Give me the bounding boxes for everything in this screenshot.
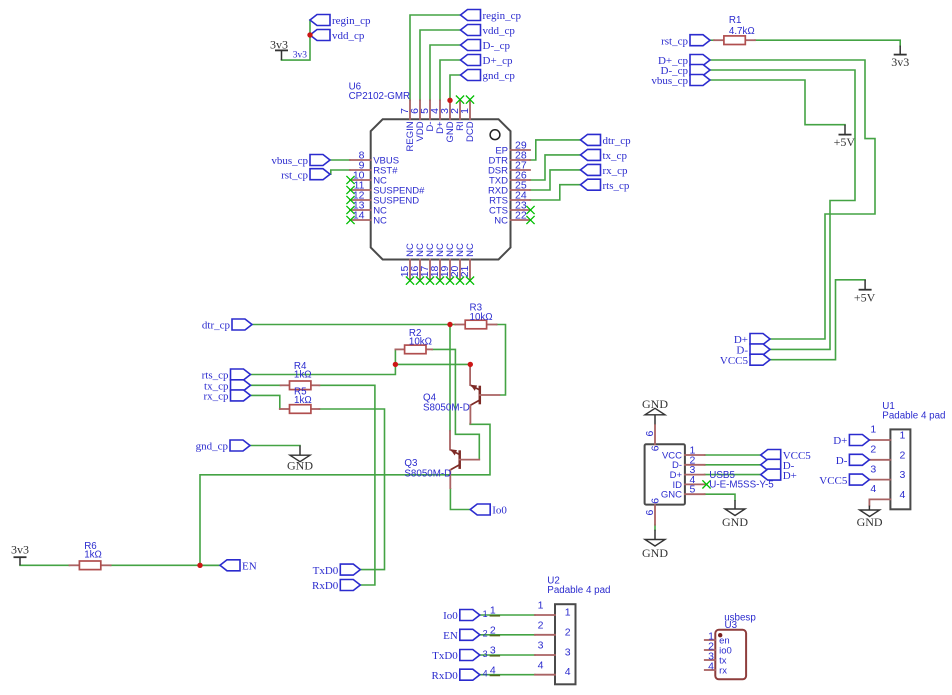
svg-text:10kΩ: 10kΩ — [409, 337, 432, 348]
svg-text:Q3: Q3 — [404, 458, 418, 469]
svg-text:3: 3 — [538, 640, 544, 652]
svg-text:3v3: 3v3 — [293, 51, 308, 61]
svg-text:1kΩ: 1kΩ — [294, 395, 312, 406]
svg-text:GNC: GNC — [661, 490, 682, 501]
svg-text:+5V: +5V — [854, 290, 876, 304]
svg-text:2: 2 — [565, 626, 571, 638]
svg-text:D+: D+ — [783, 470, 797, 482]
svg-text:14: 14 — [353, 209, 365, 221]
svg-text:3v3: 3v3 — [11, 542, 29, 556]
svg-text:3: 3 — [900, 469, 906, 481]
svg-text:4: 4 — [870, 483, 876, 495]
svg-text:RxD0: RxD0 — [432, 670, 459, 682]
svg-text:3v3: 3v3 — [270, 38, 288, 52]
svg-text:1: 1 — [538, 600, 544, 612]
svg-text:D+: D+ — [833, 435, 847, 447]
svg-text:VCC5: VCC5 — [819, 475, 848, 487]
svg-text:4: 4 — [708, 660, 714, 672]
svg-text:4: 4 — [538, 659, 544, 671]
svg-text:4: 4 — [490, 664, 496, 676]
svg-text:gnd_cp: gnd_cp — [196, 441, 229, 453]
svg-text:4: 4 — [565, 666, 571, 678]
svg-text:6: 6 — [644, 509, 656, 515]
svg-text:GND: GND — [287, 459, 313, 473]
svg-text:TxD0: TxD0 — [432, 650, 458, 662]
svg-text:NC: NC — [465, 243, 476, 257]
svg-text:1: 1 — [565, 607, 571, 619]
svg-text:5: 5 — [690, 484, 696, 496]
svg-text:DCD: DCD — [465, 121, 476, 142]
svg-text:10kΩ: 10kΩ — [470, 312, 493, 323]
svg-text:1: 1 — [483, 609, 488, 619]
svg-text:S8050M-D: S8050M-D — [423, 403, 470, 414]
svg-text:EN: EN — [443, 630, 458, 642]
svg-text:rts_cp: rts_cp — [603, 180, 630, 192]
svg-text:6: 6 — [644, 430, 656, 436]
svg-text:3: 3 — [490, 645, 496, 657]
svg-text:GND: GND — [857, 515, 883, 529]
svg-text:6: 6 — [649, 498, 661, 504]
svg-text:GND: GND — [642, 397, 668, 411]
svg-text:1kΩ: 1kΩ — [84, 549, 102, 560]
svg-text:6: 6 — [649, 445, 661, 451]
svg-text:vbus_cp: vbus_cp — [271, 155, 308, 167]
svg-text:+5V: +5V — [834, 135, 856, 149]
svg-text:Io0: Io0 — [443, 610, 458, 622]
svg-text:2: 2 — [490, 625, 496, 637]
svg-text:2: 2 — [483, 629, 488, 639]
svg-text:rst_cp: rst_cp — [281, 169, 308, 181]
svg-text:vdd_cp: vdd_cp — [483, 25, 516, 37]
svg-text:21: 21 — [459, 265, 471, 277]
svg-text:Padable 4 pad: Padable 4 pad — [882, 411, 945, 422]
svg-text:Padable 4 pad: Padable 4 pad — [547, 585, 610, 596]
svg-text:D-: D- — [836, 455, 848, 467]
svg-text:RxD0: RxD0 — [312, 580, 339, 592]
svg-text:GND: GND — [722, 515, 748, 529]
svg-text:2: 2 — [900, 449, 906, 461]
svg-text:1kΩ: 1kΩ — [294, 370, 312, 381]
svg-text:CP2102-GMR: CP2102-GMR — [349, 91, 411, 102]
svg-text:regin_cp: regin_cp — [483, 10, 522, 22]
svg-text:S8050M-D: S8050M-D — [404, 469, 451, 480]
svg-text:2: 2 — [538, 620, 544, 632]
svg-text:D+_cp: D+_cp — [483, 55, 514, 67]
svg-text:tx_cp: tx_cp — [603, 150, 628, 162]
svg-text:NC: NC — [494, 215, 508, 226]
svg-text:rx: rx — [719, 665, 727, 676]
svg-text:vbus_cp: vbus_cp — [651, 75, 688, 87]
svg-text:3v3: 3v3 — [891, 55, 909, 69]
svg-text:U3: U3 — [725, 620, 738, 631]
svg-text:2: 2 — [870, 444, 876, 456]
svg-text:4.7kΩ: 4.7kΩ — [729, 26, 755, 37]
svg-text:TxD0: TxD0 — [313, 565, 339, 577]
svg-text:R1: R1 — [729, 15, 742, 26]
svg-text:VCC5: VCC5 — [720, 355, 749, 367]
svg-text:1: 1 — [490, 605, 496, 617]
svg-text:3: 3 — [870, 463, 876, 475]
svg-text:rx_cp: rx_cp — [203, 391, 229, 403]
svg-text:dtr_cp: dtr_cp — [603, 135, 632, 147]
svg-text:1: 1 — [870, 424, 876, 436]
svg-text:4: 4 — [483, 669, 488, 679]
svg-text:22: 22 — [515, 209, 527, 221]
svg-text:rst_cp: rst_cp — [661, 35, 688, 47]
svg-text:3: 3 — [565, 647, 571, 659]
svg-text:rx_cp: rx_cp — [603, 165, 629, 177]
svg-text:3: 3 — [483, 649, 488, 659]
svg-text:gnd_cp: gnd_cp — [483, 70, 516, 82]
svg-text:1: 1 — [459, 108, 471, 114]
svg-text:1: 1 — [900, 430, 906, 442]
svg-text:4: 4 — [900, 489, 906, 501]
svg-text:D-_cp: D-_cp — [483, 40, 511, 52]
svg-text:vdd_cp: vdd_cp — [332, 30, 365, 42]
svg-text:Io0: Io0 — [492, 505, 507, 517]
svg-text:U-E-M5SS-Y-5: U-E-M5SS-Y-5 — [709, 480, 774, 491]
svg-text:regin_cp: regin_cp — [332, 15, 371, 27]
svg-text:EN: EN — [242, 561, 257, 573]
svg-text:NC: NC — [373, 215, 387, 226]
svg-text:dtr_cp: dtr_cp — [202, 320, 231, 332]
svg-text:GND: GND — [642, 546, 668, 560]
